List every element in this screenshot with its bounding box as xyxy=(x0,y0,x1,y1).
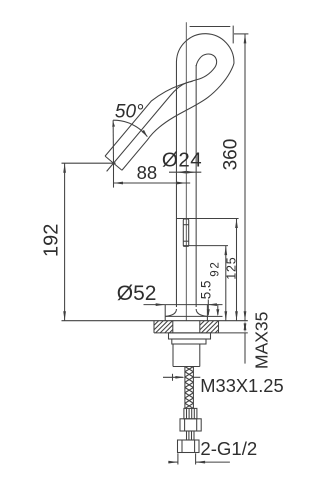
leader for 5.5 to disc top xyxy=(207,300,209,315)
angle 50 deg arc xyxy=(113,120,147,137)
extension line at spout tip level xyxy=(62,162,116,164)
counter deck cross-section outline xyxy=(153,321,155,333)
wire: tube centerline from tip xyxy=(107,81,193,171)
svg-text:360: 360 xyxy=(221,139,242,171)
dimension M33X1.25 leader xyxy=(172,374,174,381)
threaded nipple xyxy=(187,431,195,440)
wire: right flare of body base xyxy=(196,309,207,316)
svg-text:M33X1.25: M33X1.25 xyxy=(200,375,283,396)
extension tick at down-tube centerline xyxy=(232,26,234,44)
svg-text:2-G1/2: 2-G1/2 xyxy=(200,438,257,459)
extension line from loop apex to 360 line xyxy=(234,33,248,35)
dimension 92 line xyxy=(225,246,227,321)
svg-text:92: 92 xyxy=(209,260,221,276)
dimension 192 line xyxy=(64,163,66,321)
deck hatching left xyxy=(154,321,159,326)
svg-text:192: 192 xyxy=(40,224,62,257)
hex nut on hose fitting xyxy=(180,419,201,431)
svg-text:Ø24: Ø24 xyxy=(162,148,202,171)
counter deck top line xyxy=(62,320,248,322)
dimension 125 line xyxy=(236,219,238,321)
wire: spout tip end cut xyxy=(105,156,122,170)
extension of deck bottom line xyxy=(219,332,248,334)
wire: vertical centerline of riser (extension through body) xyxy=(185,22,187,321)
wire: spout upper wall curling into inner teardrop xyxy=(105,54,217,156)
deck hatching right xyxy=(200,321,205,326)
wire: spout outer silhouette: lower wall sweeping into loop and down left wall xyxy=(122,34,234,307)
svg-text:5.5: 5.5 xyxy=(198,281,213,300)
braided supply hose xyxy=(184,367,186,409)
angle vertical reference line xyxy=(112,120,114,163)
extension line below tip vertex xyxy=(113,163,115,187)
dimension D52 line xyxy=(144,304,223,306)
svg-text:125: 125 xyxy=(225,257,239,280)
hose crimp sleeve xyxy=(184,408,197,418)
threaded shank xyxy=(172,344,174,367)
svg-text:Ø52: Ø52 xyxy=(117,282,157,305)
svg-text:MAX35: MAX35 xyxy=(251,312,271,369)
extension line disc top right xyxy=(207,315,222,317)
extension ticks for D52 xyxy=(164,305,166,317)
washer under deck xyxy=(169,333,211,339)
extension line at handle bottom xyxy=(183,245,228,247)
dimension D24 line xyxy=(169,171,201,173)
extension line at handle top xyxy=(177,218,239,220)
locknut under washer xyxy=(172,339,206,344)
second 5.5 arrow xyxy=(217,305,219,315)
svg-text:88: 88 xyxy=(137,162,158,183)
dimension 360 line xyxy=(244,34,246,321)
dimension 2-G1/2 line xyxy=(168,461,178,463)
svg-text:50°: 50° xyxy=(115,102,144,123)
wire: left flare of body base xyxy=(165,309,176,316)
lower hex nut G1/2 xyxy=(178,440,200,453)
base disc (D52) outline xyxy=(165,315,207,317)
wire: riser right wall xyxy=(195,65,197,307)
handle lever on riser xyxy=(183,219,188,246)
top tick dimension line xyxy=(190,26,231,28)
extension ticks for G1/2 nut xyxy=(177,453,179,464)
deck mounting hole walls xyxy=(172,321,174,333)
dimension MAX35 arrows at deck xyxy=(244,321,247,331)
dimension 88 line xyxy=(114,182,191,184)
